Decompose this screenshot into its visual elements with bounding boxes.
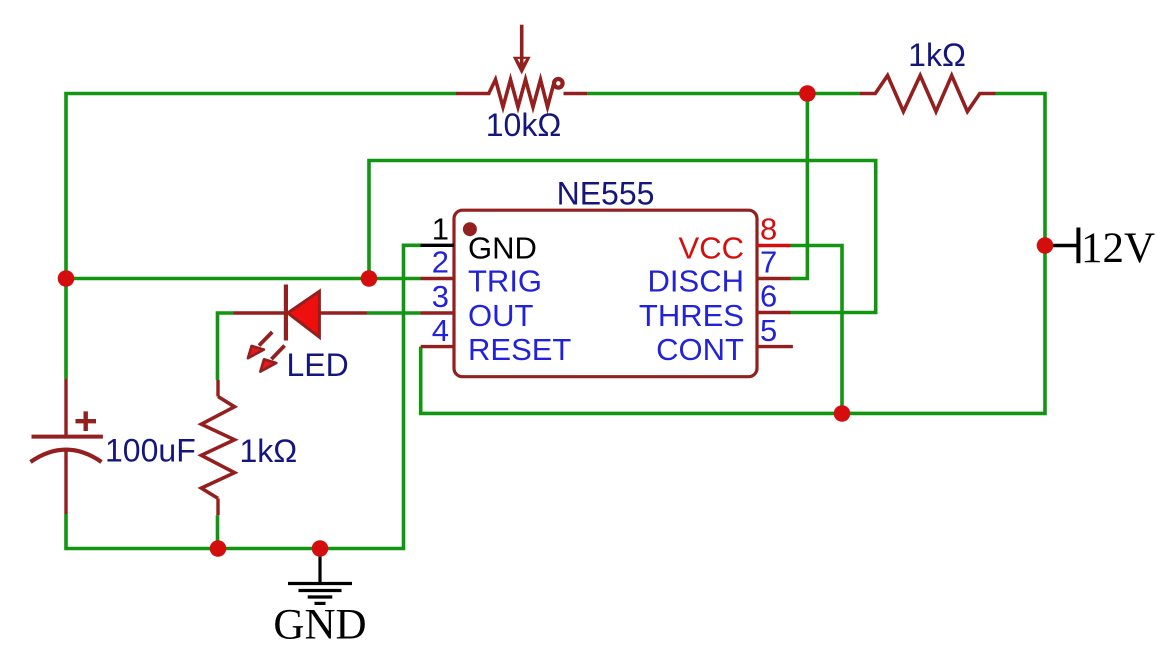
wire potentiometer right terminal to top junction [587,92,807,96]
wire VCC pin to 12V rail [791,246,843,414]
wire LED cathode side to resistor R2 [218,313,234,380]
wire RESET to VCC rail (node 12V) [421,94,1045,414]
junction at left TRIG rail [58,270,75,287]
svg-text:DISCH: DISCH [648,264,744,299]
LED D1 [234,285,368,341]
IC pin-1 marker dot [463,222,477,236]
svg-text:1kΩ: 1kΩ [908,37,966,73]
svg-text:VCC: VCC [679,231,744,266]
svg-text:RESET: RESET [468,332,571,367]
svg-text:1: 1 [432,212,449,247]
svg-text:OUT: OUT [468,298,534,333]
potentiometer RV1 body [456,79,587,107]
resistor R2 1k&#937; (vertical) [201,380,234,515]
svg-text:2: 2 [432,245,449,280]
potentiometer RV1 wiper arrow [513,25,531,75]
pin 2 TRIG [421,245,543,299]
power flag 12V [1045,225,1155,272]
junction top rail / DISCH [799,85,816,102]
pin 8 VCC [679,212,791,266]
wire R2 bottom to bottom rail [216,515,220,548]
junction bottom rail R2 [210,540,227,557]
svg-text:100uF: 100uF [105,433,196,469]
pin 1 GND [421,212,537,266]
capacitor C1 100uF (polarized) [31,379,103,514]
svg-text:THRES: THRES [639,298,744,333]
svg-text:TRIG: TRIG [468,264,542,299]
wire DISCH pin up to top junction [791,94,808,279]
LED emission arrows [248,332,285,372]
IC U1 NE555 body [454,210,757,377]
svg-text:6: 6 [760,279,777,314]
wire top junction to resistor R1 [807,92,859,96]
wire LED anode side to OUT pin [367,311,421,315]
ground symbol [288,549,352,604]
svg-text:CONT: CONT [656,332,744,367]
junction TRIG at pin 2 branch [361,270,378,287]
svg-text:8: 8 [760,212,777,247]
junction VCC rail [834,405,851,422]
svg-text:4: 4 [432,313,449,348]
wire TRIG rail (node TRIG) [66,277,421,281]
pin 3 OUT [421,279,534,333]
svg-text:5: 5 [760,313,777,348]
pin 6 THRES [639,279,791,334]
svg-text:7: 7 [760,245,777,280]
wire top-left rail and left column down to capacitor [66,94,456,380]
wire capacitor bottom to bottom rail, up to pin 1 GND [66,245,421,548]
svg-text:10kΩ: 10kΩ [486,107,562,143]
svg-text:GND: GND [468,231,537,266]
svg-text:12V: 12V [1081,225,1155,272]
pin 4 RESET [421,313,572,367]
svg-text:3: 3 [432,279,449,314]
junction 12V flag [1037,237,1054,254]
svg-text:GND: GND [273,602,366,649]
svg-text:1kΩ: 1kΩ [240,433,298,469]
wire TRIG to THRES link [369,161,876,313]
svg-text:NE555: NE555 [557,176,655,212]
pin 7 DISCH [648,245,791,299]
resistor R1 1k&#937; (top right) [860,76,996,112]
svg-text:LED: LED [287,347,349,383]
pin 5 CONT [656,313,793,367]
junction bottom rail ground [312,540,329,557]
